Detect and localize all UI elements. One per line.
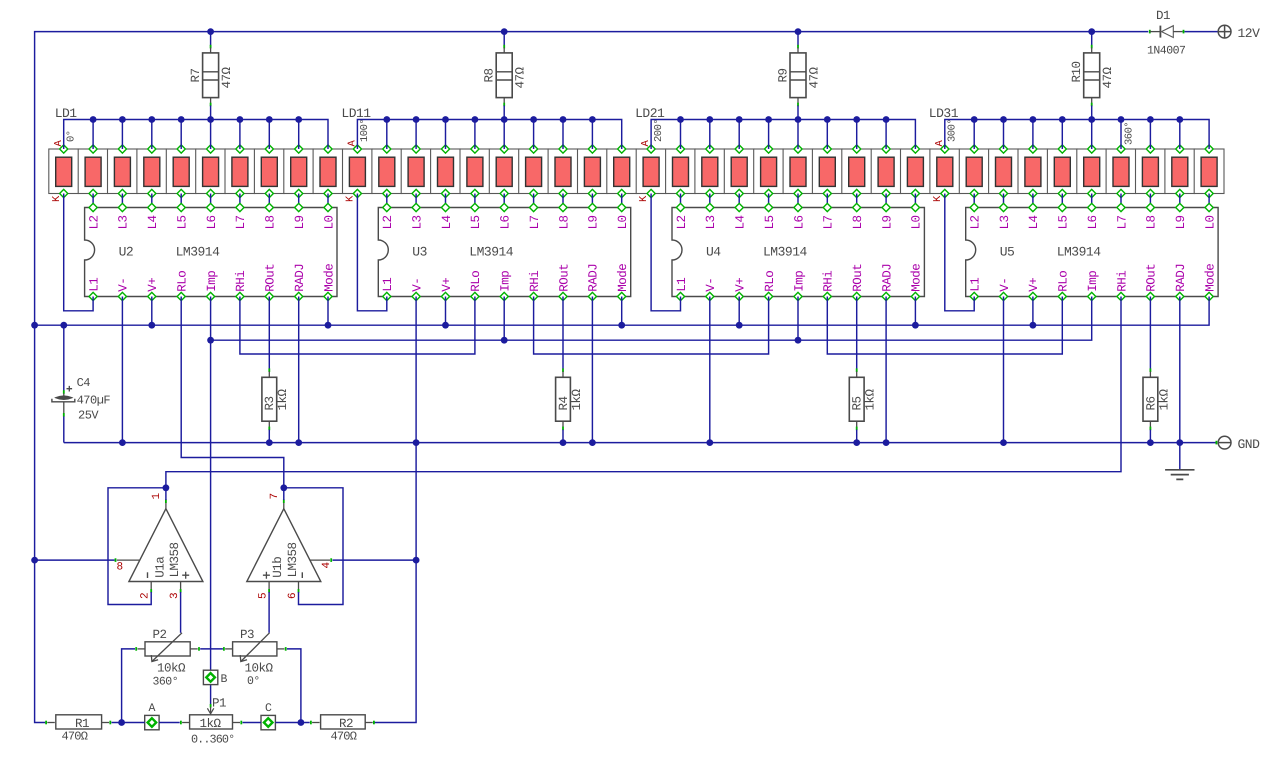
svg-text:U1b: U1b xyxy=(271,557,285,578)
op IC U2 LM3914 xyxy=(85,203,337,300)
svg-text:L2: L2 xyxy=(969,215,983,229)
svg-text:GND: GND xyxy=(1238,437,1261,452)
svg-text:L3: L3 xyxy=(410,215,424,229)
svg-text:L5: L5 xyxy=(1057,215,1071,229)
wire: U4 pin L1 to LD21 cathode 1 xyxy=(651,194,680,311)
wire: +12V rail to U1a pin 8 xyxy=(35,559,115,561)
svg-text:L6: L6 xyxy=(205,215,219,229)
svg-text:1kΩ: 1kΩ xyxy=(1157,388,1171,410)
wire: U3 RADJ to GND rail xyxy=(589,297,596,447)
svg-text:ROut: ROut xyxy=(264,264,278,292)
svg-text:360°: 360° xyxy=(1124,122,1136,145)
svg-text:L9: L9 xyxy=(293,215,307,229)
svg-text:V-: V- xyxy=(410,278,424,292)
potentiometer P1 1k&#937; 0..360&#176; xyxy=(181,697,241,747)
svg-text:LD11: LD11 xyxy=(341,106,371,121)
resistor R1 470&#937; xyxy=(46,715,110,744)
svg-text:47Ω: 47Ω xyxy=(514,66,528,88)
op IC U4 LM3914 xyxy=(672,203,924,300)
svg-text:R3: R3 xyxy=(263,396,277,410)
svg-text:0°: 0° xyxy=(247,675,260,688)
svg-text:V-: V- xyxy=(704,278,718,292)
svg-text:RLo: RLo xyxy=(763,271,777,292)
svg-text:25V: 25V xyxy=(78,409,99,423)
svg-text:R5: R5 xyxy=(851,396,865,410)
svg-text:RHi: RHi xyxy=(234,271,248,292)
svg-text:C4: C4 xyxy=(77,376,91,390)
svg-text:470µF: 470µF xyxy=(77,394,111,408)
wire: +12V horizontal bus to U5 Mode xyxy=(35,297,1210,329)
resistor R9 47&#937; xyxy=(777,32,822,120)
svg-text:RADJ: RADJ xyxy=(1174,264,1188,292)
potentiometer P3 10k&#937; 0&#176; xyxy=(224,628,286,688)
svg-text:LM358: LM358 xyxy=(168,542,182,577)
svg-text:L0: L0 xyxy=(322,215,336,229)
wire: +12V top rail with left rail down to R1 xyxy=(31,28,1148,722)
wire: P2 right to P3 left xyxy=(200,648,223,650)
LED bargraph display LD1 xyxy=(49,106,343,202)
wire: node C to R2 xyxy=(275,722,309,724)
svg-text:L4: L4 xyxy=(1027,215,1041,229)
resistor R2 470&#937; xyxy=(311,715,374,744)
svg-text:L8: L8 xyxy=(264,215,278,229)
svg-text:RADJ: RADJ xyxy=(587,264,601,292)
wire: GND rail down to U1b pin4 and R2 xyxy=(375,443,420,723)
svg-text:A: A xyxy=(149,702,156,715)
svg-text:ROut: ROut xyxy=(1145,264,1159,292)
svg-text:LD31: LD31 xyxy=(929,106,959,121)
resistor R4 1k&#937; xyxy=(556,368,584,430)
svg-text:L4: L4 xyxy=(440,215,454,229)
svg-text:RHi: RHi xyxy=(1115,271,1129,292)
wire: U1a output to U5 RHi xyxy=(163,297,1122,501)
wire: LD21 cathode stubs to U4 xyxy=(681,194,916,208)
wire: U4 ROut to R5 xyxy=(856,297,858,369)
svg-text:L1: L1 xyxy=(675,278,689,292)
svg-text:RLo: RLo xyxy=(1057,271,1071,292)
svg-text:V+: V+ xyxy=(734,278,748,292)
op-amp U1a LM358 xyxy=(116,493,203,600)
wire: U2 Mode to +12V bus xyxy=(325,297,332,329)
svg-text:1kΩ: 1kΩ xyxy=(570,388,584,410)
wire: R1 to node A xyxy=(112,722,145,724)
svg-text:V+: V+ xyxy=(440,278,454,292)
svg-text:3: 3 xyxy=(169,593,181,599)
potentiometer P2 10k&#937; 360&#176; xyxy=(136,628,199,689)
resistor R8 47&#937; xyxy=(483,32,528,120)
wire: U1a feedback output to pin 2 xyxy=(108,488,166,605)
svg-text:U4: U4 xyxy=(706,245,721,260)
svg-text:D1: D1 xyxy=(1156,9,1170,23)
svg-text:V+: V+ xyxy=(146,278,160,292)
wire: U1a pin 3 to P2 wiper xyxy=(180,592,182,633)
wire: LD11 anode bus xyxy=(357,116,621,149)
capacitor C4 470uF 25V (polarized) xyxy=(52,376,111,423)
svg-text:LM3914: LM3914 xyxy=(469,245,514,260)
svg-text:L0: L0 xyxy=(910,215,924,229)
svg-text:L5: L5 xyxy=(763,215,777,229)
svg-text:47Ω: 47Ω xyxy=(220,66,234,88)
svg-text:P1: P1 xyxy=(212,697,226,711)
svg-text:B: B xyxy=(221,673,228,686)
wire: U3 V- to GND rail xyxy=(413,297,420,447)
svg-text:L9: L9 xyxy=(587,215,601,229)
svg-text:LM3914: LM3914 xyxy=(176,245,221,260)
svg-text:0°: 0° xyxy=(65,130,77,142)
op IC U3 LM3914 xyxy=(378,203,630,300)
wire: P2 left terminal down to node A row xyxy=(118,649,135,726)
svg-text:R6: R6 xyxy=(1144,396,1158,410)
svg-text:L7: L7 xyxy=(528,215,542,229)
svg-text:L7: L7 xyxy=(1115,215,1129,229)
svg-text:2: 2 xyxy=(140,593,152,599)
svg-text:LM3914: LM3914 xyxy=(763,245,808,260)
svg-text:10kΩ: 10kΩ xyxy=(157,662,186,676)
svg-text:L9: L9 xyxy=(1174,215,1188,229)
svg-text:U2: U2 xyxy=(119,245,134,260)
svg-text:200°: 200° xyxy=(653,119,665,142)
svg-text:Mode: Mode xyxy=(1203,264,1217,292)
svg-text:P2: P2 xyxy=(153,628,167,642)
svg-text:470Ω: 470Ω xyxy=(331,730,357,744)
svg-text:L3: L3 xyxy=(998,215,1012,229)
wire: U1b feedback output to pin 6 xyxy=(284,488,343,605)
svg-text:L5: L5 xyxy=(176,215,190,229)
svg-text:L9: L9 xyxy=(880,215,894,229)
svg-text:V-: V- xyxy=(117,278,131,292)
svg-text:8: 8 xyxy=(117,562,123,574)
wire: LD1 anode bus xyxy=(64,116,328,149)
svg-text:47Ω: 47Ω xyxy=(808,66,822,88)
wire: GND rail xyxy=(64,441,1217,445)
svg-text:RLo: RLo xyxy=(469,271,483,292)
wire: U1b pin 5 to P3 wiper xyxy=(268,592,270,633)
svg-text:360°: 360° xyxy=(153,676,179,689)
svg-text:LD21: LD21 xyxy=(635,106,665,121)
wire: R5 to GND rail xyxy=(853,430,860,446)
wire: LD1 cathode stubs to U2 xyxy=(93,194,328,208)
svg-text:R4: R4 xyxy=(557,396,571,410)
node A junction xyxy=(145,702,159,730)
svg-text:Mode: Mode xyxy=(616,264,630,292)
svg-text:U3: U3 xyxy=(412,245,427,260)
svg-text:12V: 12V xyxy=(1238,26,1261,41)
svg-text:L0: L0 xyxy=(616,215,630,229)
svg-text:Mode: Mode xyxy=(322,264,336,292)
svg-text:L2: L2 xyxy=(675,215,689,229)
resistor R10 47&#937; xyxy=(1070,32,1115,120)
wire: R4 to GND rail xyxy=(560,430,567,446)
wire: U5 RADJ net down to earth ground xyxy=(1179,443,1181,470)
wire: U3 Mode to +12V bus xyxy=(618,297,625,329)
resistor R5 1k&#937; xyxy=(849,368,877,430)
svg-text:RHi: RHi xyxy=(528,271,542,292)
svg-text:L6: L6 xyxy=(792,215,806,229)
wire: U3 ROut to R4 xyxy=(562,297,564,369)
svg-text:L4: L4 xyxy=(146,215,160,229)
svg-text:L2: L2 xyxy=(87,215,101,229)
svg-text:LM3914: LM3914 xyxy=(1057,245,1102,260)
op IC U5 LM3914 xyxy=(966,203,1218,300)
svg-text:RHi: RHi xyxy=(822,271,836,292)
wire: LD31 cathode stubs to U5 xyxy=(974,194,1209,208)
ground symbol GND xyxy=(1218,436,1260,452)
svg-text:L6: L6 xyxy=(499,215,513,229)
svg-text:L3: L3 xyxy=(117,215,131,229)
svg-text:LD1: LD1 xyxy=(55,106,78,121)
svg-text:Imp: Imp xyxy=(205,271,219,292)
svg-text:LM358: LM358 xyxy=(286,542,300,577)
wire: U4 Mode to +12V bus xyxy=(912,297,919,329)
svg-text:ROut: ROut xyxy=(557,264,571,292)
svg-text:V-: V- xyxy=(998,278,1012,292)
svg-text:1kΩ: 1kΩ xyxy=(864,388,878,410)
svg-text:R8: R8 xyxy=(483,68,497,82)
wire: LD31 anode bus xyxy=(945,116,1209,149)
LED bargraph display LD31 xyxy=(929,106,1224,202)
svg-text:U1a: U1a xyxy=(153,556,167,578)
svg-text:0..360°: 0..360° xyxy=(191,733,234,747)
svg-text:RADJ: RADJ xyxy=(880,264,894,292)
svg-text:C: C xyxy=(265,702,272,715)
svg-text:R9: R9 xyxy=(777,68,791,82)
wire: R6 to GND rail xyxy=(1147,430,1154,446)
wire: U2 V+ to +12V bus xyxy=(148,297,155,329)
wire: U2 RHi to U3 RLo reference chain xyxy=(240,297,475,355)
svg-text:RLo: RLo xyxy=(176,271,190,292)
wire: U3 pin L1 to LD11 cathode 1 xyxy=(357,194,386,311)
svg-text:L4: L4 xyxy=(734,215,748,229)
svg-text:7: 7 xyxy=(269,493,281,499)
svg-text:L5: L5 xyxy=(469,215,483,229)
svg-text:L1: L1 xyxy=(381,278,395,292)
wire: U1b pin 4 to GND vertical xyxy=(333,559,417,561)
svg-text:4: 4 xyxy=(321,562,333,569)
earth ground symbol xyxy=(1165,470,1194,480)
wire: C4 to GND rail xyxy=(63,416,65,442)
diode D1 1N4007 xyxy=(1147,9,1218,58)
wire: U4 RADJ to GND rail xyxy=(883,297,890,447)
svg-text:1: 1 xyxy=(151,493,163,500)
svg-text:5: 5 xyxy=(258,593,270,599)
wire: U2 V- to GND rail xyxy=(119,297,126,447)
svg-text:Imp: Imp xyxy=(1086,271,1100,292)
wire: U2 RADJ to GND rail xyxy=(295,297,302,447)
wire: LD21 anode bus xyxy=(651,116,915,149)
svg-text:RADJ: RADJ xyxy=(293,264,307,292)
wire: U4 V+ to +12V bus xyxy=(736,297,743,329)
svg-text:ROut: ROut xyxy=(851,264,865,292)
resistor R3 1k&#937; xyxy=(262,368,290,430)
wire: U5 RADJ to GND rail xyxy=(1176,297,1183,447)
svg-text:300°: 300° xyxy=(947,119,959,142)
svg-text:47Ω: 47Ω xyxy=(1101,66,1115,88)
LED bargraph display LD21 xyxy=(635,106,930,202)
resistor R6 1k&#937; xyxy=(1143,368,1171,430)
svg-text:L8: L8 xyxy=(1145,215,1159,229)
wire: LD11 cathode stubs to U3 xyxy=(387,194,622,208)
wire: U1b output to U2 RLo xyxy=(181,297,287,501)
wire: U5 pin L1 to LD31 cathode 1 xyxy=(945,194,974,311)
svg-text:P3: P3 xyxy=(240,628,254,642)
wire: signal bus joining Imp pins, node B, P1 wiper xyxy=(207,297,1091,714)
wire: U5 V+ to +12V bus xyxy=(1030,297,1037,329)
svg-text:6: 6 xyxy=(287,593,299,599)
resistor R7 47&#937; xyxy=(189,32,234,120)
power symbol +12V xyxy=(1218,25,1260,41)
svg-text:L0: L0 xyxy=(1203,215,1217,229)
svg-text:Imp: Imp xyxy=(499,271,513,292)
svg-text:R10: R10 xyxy=(1070,61,1084,82)
svg-text:1kΩ: 1kΩ xyxy=(276,388,290,410)
svg-text:L6: L6 xyxy=(1086,215,1100,229)
svg-text:1N4007: 1N4007 xyxy=(1147,45,1185,58)
svg-text:L7: L7 xyxy=(822,215,836,229)
svg-text:100°: 100° xyxy=(359,119,371,142)
svg-text:U5: U5 xyxy=(1000,245,1015,260)
svg-text:10kΩ: 10kΩ xyxy=(245,662,274,676)
wire: U2 ROut to R3 xyxy=(268,297,270,369)
svg-text:L8: L8 xyxy=(851,215,865,229)
wire: U2 pin L1 to LD1 cathode 1 xyxy=(64,194,93,311)
wire: U4 V- to GND rail xyxy=(706,297,713,447)
svg-text:V+: V+ xyxy=(1027,278,1041,292)
svg-text:470Ω: 470Ω xyxy=(62,730,88,744)
svg-text:L1: L1 xyxy=(87,278,101,292)
wire: P3 right terminal down to node C row xyxy=(287,649,304,726)
node C junction xyxy=(261,702,275,730)
svg-text:L7: L7 xyxy=(234,215,248,229)
wire: R3 to GND rail xyxy=(266,430,273,446)
svg-text:L2: L2 xyxy=(381,215,395,229)
svg-text:1kΩ: 1kΩ xyxy=(200,717,222,731)
svg-text:L3: L3 xyxy=(704,215,718,229)
svg-text:Mode: Mode xyxy=(910,264,924,292)
wire: P1 to node C xyxy=(243,722,262,724)
LED bargraph display LD11 xyxy=(341,106,636,202)
svg-text:R7: R7 xyxy=(189,68,203,82)
wire: node A to P1 xyxy=(159,722,180,724)
svg-text:L1: L1 xyxy=(969,278,983,292)
wire: U3 RHi to U4 RLo reference chain xyxy=(534,297,769,355)
wire: +12V bus to C4 xyxy=(63,325,65,394)
svg-text:Imp: Imp xyxy=(792,271,806,292)
wire: U5 ROut to R6 xyxy=(1149,297,1151,369)
wire: U5 V- to GND rail xyxy=(1000,297,1007,447)
wire: U3 V+ to +12V bus xyxy=(442,297,449,329)
svg-text:L8: L8 xyxy=(557,215,571,229)
op-amp U1b LM358 xyxy=(247,493,333,599)
node B junction xyxy=(203,670,227,686)
wire: U4 RHi to U5 RLo reference chain xyxy=(827,297,1062,355)
